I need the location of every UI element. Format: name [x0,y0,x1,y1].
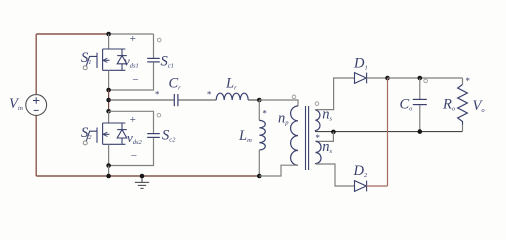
transistor S2 (MOSFET with body diode) [86,123,127,144]
svg-text:+: + [129,33,136,45]
wire: Co bottom lead [419,105,421,132]
source V_in [26,95,47,116]
wire: left vertical upper (Vin to top rail) [35,34,37,95]
wire: S2 source to bottom rail [108,166,110,177]
svg-text:D1: D1 [353,56,368,72]
svg-text:*: * [262,109,267,119]
wire: Sc2 top branch [109,111,154,133]
wire: Sc2 bottom return [109,138,154,166]
capacitor Cr plates [174,94,178,106]
wire: secondary bottom to D2 [316,164,355,186]
wire: Lm bottom lead [258,150,260,176]
diode D1 [355,73,367,84]
wire: D1 cathode to node [367,77,388,79]
junction dot: Co bottom [418,129,423,134]
transformer core [306,106,309,170]
svg-text:Lr: Lr [225,75,237,91]
node marker o top right of Sc1 [157,38,161,42]
svg-text:*: * [465,76,470,86]
node marker o top right of Sc2 [157,113,161,117]
junction dot: Lm bottom on rail [257,174,262,179]
svg-text:Sc1: Sc1 [161,54,174,70]
wire: node to primary top [259,100,298,106]
transformer secondary bottom winding n_s [316,141,322,164]
svg-text:D2: D2 [353,163,368,179]
wire: rectifier junction vertical red [387,78,389,186]
svg-text:*: * [155,90,160,100]
svg-text:*: * [207,90,212,100]
svg-text:Vin: Vin [9,96,23,112]
wire: center tap line [316,131,463,133]
ground [135,176,149,188]
svg-text:−: − [132,74,139,86]
junction dot: Sc1 return node [106,88,111,93]
node marker o right of Co top [424,79,428,83]
svg-text:−: − [130,150,137,162]
transistor S1 (MOSFET with body diode) [86,49,127,70]
wire: top rail gray from node to Sc1 branch [109,33,154,35]
transformer secondary top winding n_s [316,110,320,132]
wire: S1 drain lead [108,34,110,49]
terminal circle: S1 gate [83,66,87,70]
junction dot: S2 drain node [106,109,111,114]
svg-text:vds2: vds2 [127,130,143,146]
junction dot: S1 drain node on top rail [106,32,111,37]
wire: D2 cathode to junction vertical [367,185,388,187]
svg-text:Sc2: Sc2 [162,128,176,144]
wire: top rail red from Vin to S1 drain node [36,33,108,35]
svg-text:vds1: vds1 [124,54,139,70]
inductor Lr [216,93,248,100]
capacitor Sc1 branch: top wire down from rail [153,34,155,58]
junction dot: Lm top node [257,98,262,103]
svg-text:Ro: Ro [442,97,456,113]
node marker o above primary [292,95,296,99]
diode D2 [355,181,367,192]
svg-text:Cr: Cr [169,75,182,91]
capacitor Co plates [413,99,427,104]
wire: Ro top lead [462,78,464,85]
wire: bottom rail red [36,175,259,177]
capacitor Sc2 plates [147,134,160,138]
wire: S2 source lead [108,144,110,165]
capacitor Sc1 plates [147,58,160,62]
junction dot: S2 source / Sc2 return node [106,163,111,168]
wire: primary bottom return to rail [259,165,298,176]
wire: secondary top to D1 [316,78,355,110]
wire: output top rail [388,77,463,79]
wire: Lr to Lm node [248,99,259,101]
wire: Cr to Lr [178,99,216,101]
transformer primary winding n_p [291,106,298,165]
node marker o above secondary [315,102,319,106]
wire: Sc1 bottom return [109,62,154,90]
resistor Ro zigzag [458,85,468,125]
wire: Ro bottom lead [462,125,464,132]
wire: mid row node to Cr [109,99,174,101]
wire: S1 source lead [108,70,110,90]
terminal circle: S2 gate [83,141,87,145]
svg-text:Co: Co [400,97,414,113]
wire: mid column between nodes [108,90,110,111]
wire: Lm top lead [258,100,260,120]
wire: S2 drain lead [108,111,110,123]
junction dot: ground on bottom rail [140,174,145,179]
svg-text:np: np [278,110,289,126]
junction dot: rectifier output node [385,76,390,81]
junction dot: center tap [331,130,336,135]
svg-text:Vo: Vo [473,98,486,114]
inductor Lm [259,120,265,150]
junction dot: Co top [418,76,423,81]
svg-text:S2: S2 [81,125,92,141]
wire: center tap stub to lower winding [316,132,334,142]
wire: left vertical lower (Vin to bottom rail) [35,116,37,176]
svg-text:+: + [129,114,136,126]
svg-text:S1: S1 [81,50,92,66]
junction dot: bottom rail at S2 [106,174,111,179]
svg-text:Lm: Lm [238,128,252,144]
junction dot: midpoint node to Cr [106,98,111,103]
wire: Co top lead [419,78,421,99]
